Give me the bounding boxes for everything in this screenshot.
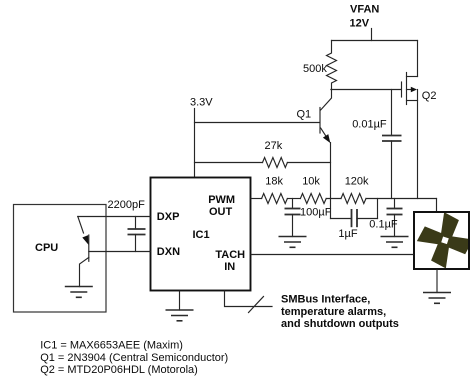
svg-text:Q2: Q2 xyxy=(422,90,437,102)
svg-text:Q1 = 2N3904 (Central Semicondu: Q1 = 2N3904 (Central Semiconductor) xyxy=(40,352,228,364)
CPU box xyxy=(14,205,107,313)
svg-text:SMBus Interface,: SMBus Interface, xyxy=(281,294,370,306)
svg-text:100µF: 100µF xyxy=(300,206,332,218)
wire SMBus drop and run xyxy=(225,291,273,307)
svg-text:DXP: DXP xyxy=(157,211,180,223)
svg-text:3.3V: 3.3V xyxy=(190,97,213,109)
svg-text:OUT: OUT xyxy=(209,206,233,218)
ground below 100uF xyxy=(279,237,307,248)
resistor R 120k xyxy=(341,176,369,204)
wire Q1 base xyxy=(195,122,320,124)
label VFAN 12V supply xyxy=(350,4,380,30)
ground below IC1 xyxy=(166,310,194,321)
wire DXP xyxy=(78,216,150,218)
svg-text:IC1 = MAX6653AEE (Maxim): IC1 = MAX6653AEE (Maxim) xyxy=(40,339,183,351)
svg-text:PWM: PWM xyxy=(208,194,235,206)
svg-text:IN: IN xyxy=(224,261,235,273)
wire PWM out segment xyxy=(251,198,262,200)
ground in CPU xyxy=(65,287,93,298)
wire DXN xyxy=(89,251,150,253)
ground below 0.1uF xyxy=(381,237,409,248)
svg-text:IC1: IC1 xyxy=(193,229,210,241)
svg-text:DXN: DXN xyxy=(157,246,180,258)
capacitor C 0.1uF xyxy=(369,199,402,237)
svg-text:CPU: CPU xyxy=(35,242,58,254)
resistor R 27k xyxy=(195,140,331,167)
svg-text:12V: 12V xyxy=(350,18,370,30)
svg-text:2200pF: 2200pF xyxy=(108,199,146,211)
wire TACH line xyxy=(251,254,413,256)
wire 3.3V rail down to IC1 xyxy=(194,109,196,178)
capacitor C 2200pF xyxy=(108,199,146,252)
svg-text:10k: 10k xyxy=(302,176,320,188)
svg-text:0.01µF: 0.01µF xyxy=(352,119,387,131)
svg-text:0.1µF: 0.1µF xyxy=(369,218,398,230)
wire node2 segment xyxy=(326,198,341,200)
bus slash mark xyxy=(249,297,264,313)
svg-text:Q1: Q1 xyxy=(297,109,312,121)
capacitor C 100uF xyxy=(285,199,332,237)
wire node3 to fan drop xyxy=(366,198,437,200)
wire fan ground stub xyxy=(436,270,438,293)
transistor Q1 NPN xyxy=(297,90,332,144)
wire node1 segment xyxy=(287,198,300,200)
wire fan feed drop xyxy=(436,199,438,212)
wire Q2 drain down to fan line xyxy=(417,90,419,199)
svg-text:TACH: TACH xyxy=(215,249,245,261)
note list bottom xyxy=(40,339,228,376)
svg-text:18k: 18k xyxy=(265,176,283,188)
wire gate node (500k bottom to Q2 gate) xyxy=(331,89,401,91)
wire IC1 ground stub xyxy=(179,291,181,310)
label SMBus note xyxy=(281,294,399,331)
svg-text:120k: 120k xyxy=(345,176,369,188)
transistor Q2 P-channel MOSFET xyxy=(402,41,437,105)
fan box xyxy=(412,207,474,274)
resistor R 10k xyxy=(300,176,326,204)
svg-text:temperature alarms,: temperature alarms, xyxy=(281,306,386,318)
ground below fan xyxy=(423,293,451,304)
svg-text:VFAN: VFAN xyxy=(350,4,379,16)
wire VFAN stub xyxy=(371,29,373,41)
IC1 box MAX6653 xyxy=(151,178,251,291)
svg-text:and shutdown outputs: and shutdown outputs xyxy=(281,318,399,330)
capacitor C 1uF (parallel with 120k) xyxy=(331,199,378,240)
wire Q1 emitter down xyxy=(330,143,332,199)
resistor R 18k xyxy=(262,176,288,204)
capacitor C 0.01uF xyxy=(352,90,401,199)
resistor R 500k xyxy=(303,41,337,90)
transistor thermal PNP in CPU xyxy=(78,217,89,287)
svg-text:Q2 = MTD20P06HDL (Motorola): Q2 = MTD20P06HDL (Motorola) xyxy=(40,364,198,376)
svg-text:1µF: 1µF xyxy=(338,228,357,240)
svg-text:27k: 27k xyxy=(265,140,283,152)
wire top rail xyxy=(332,40,418,42)
svg-text:500k: 500k xyxy=(303,63,327,75)
